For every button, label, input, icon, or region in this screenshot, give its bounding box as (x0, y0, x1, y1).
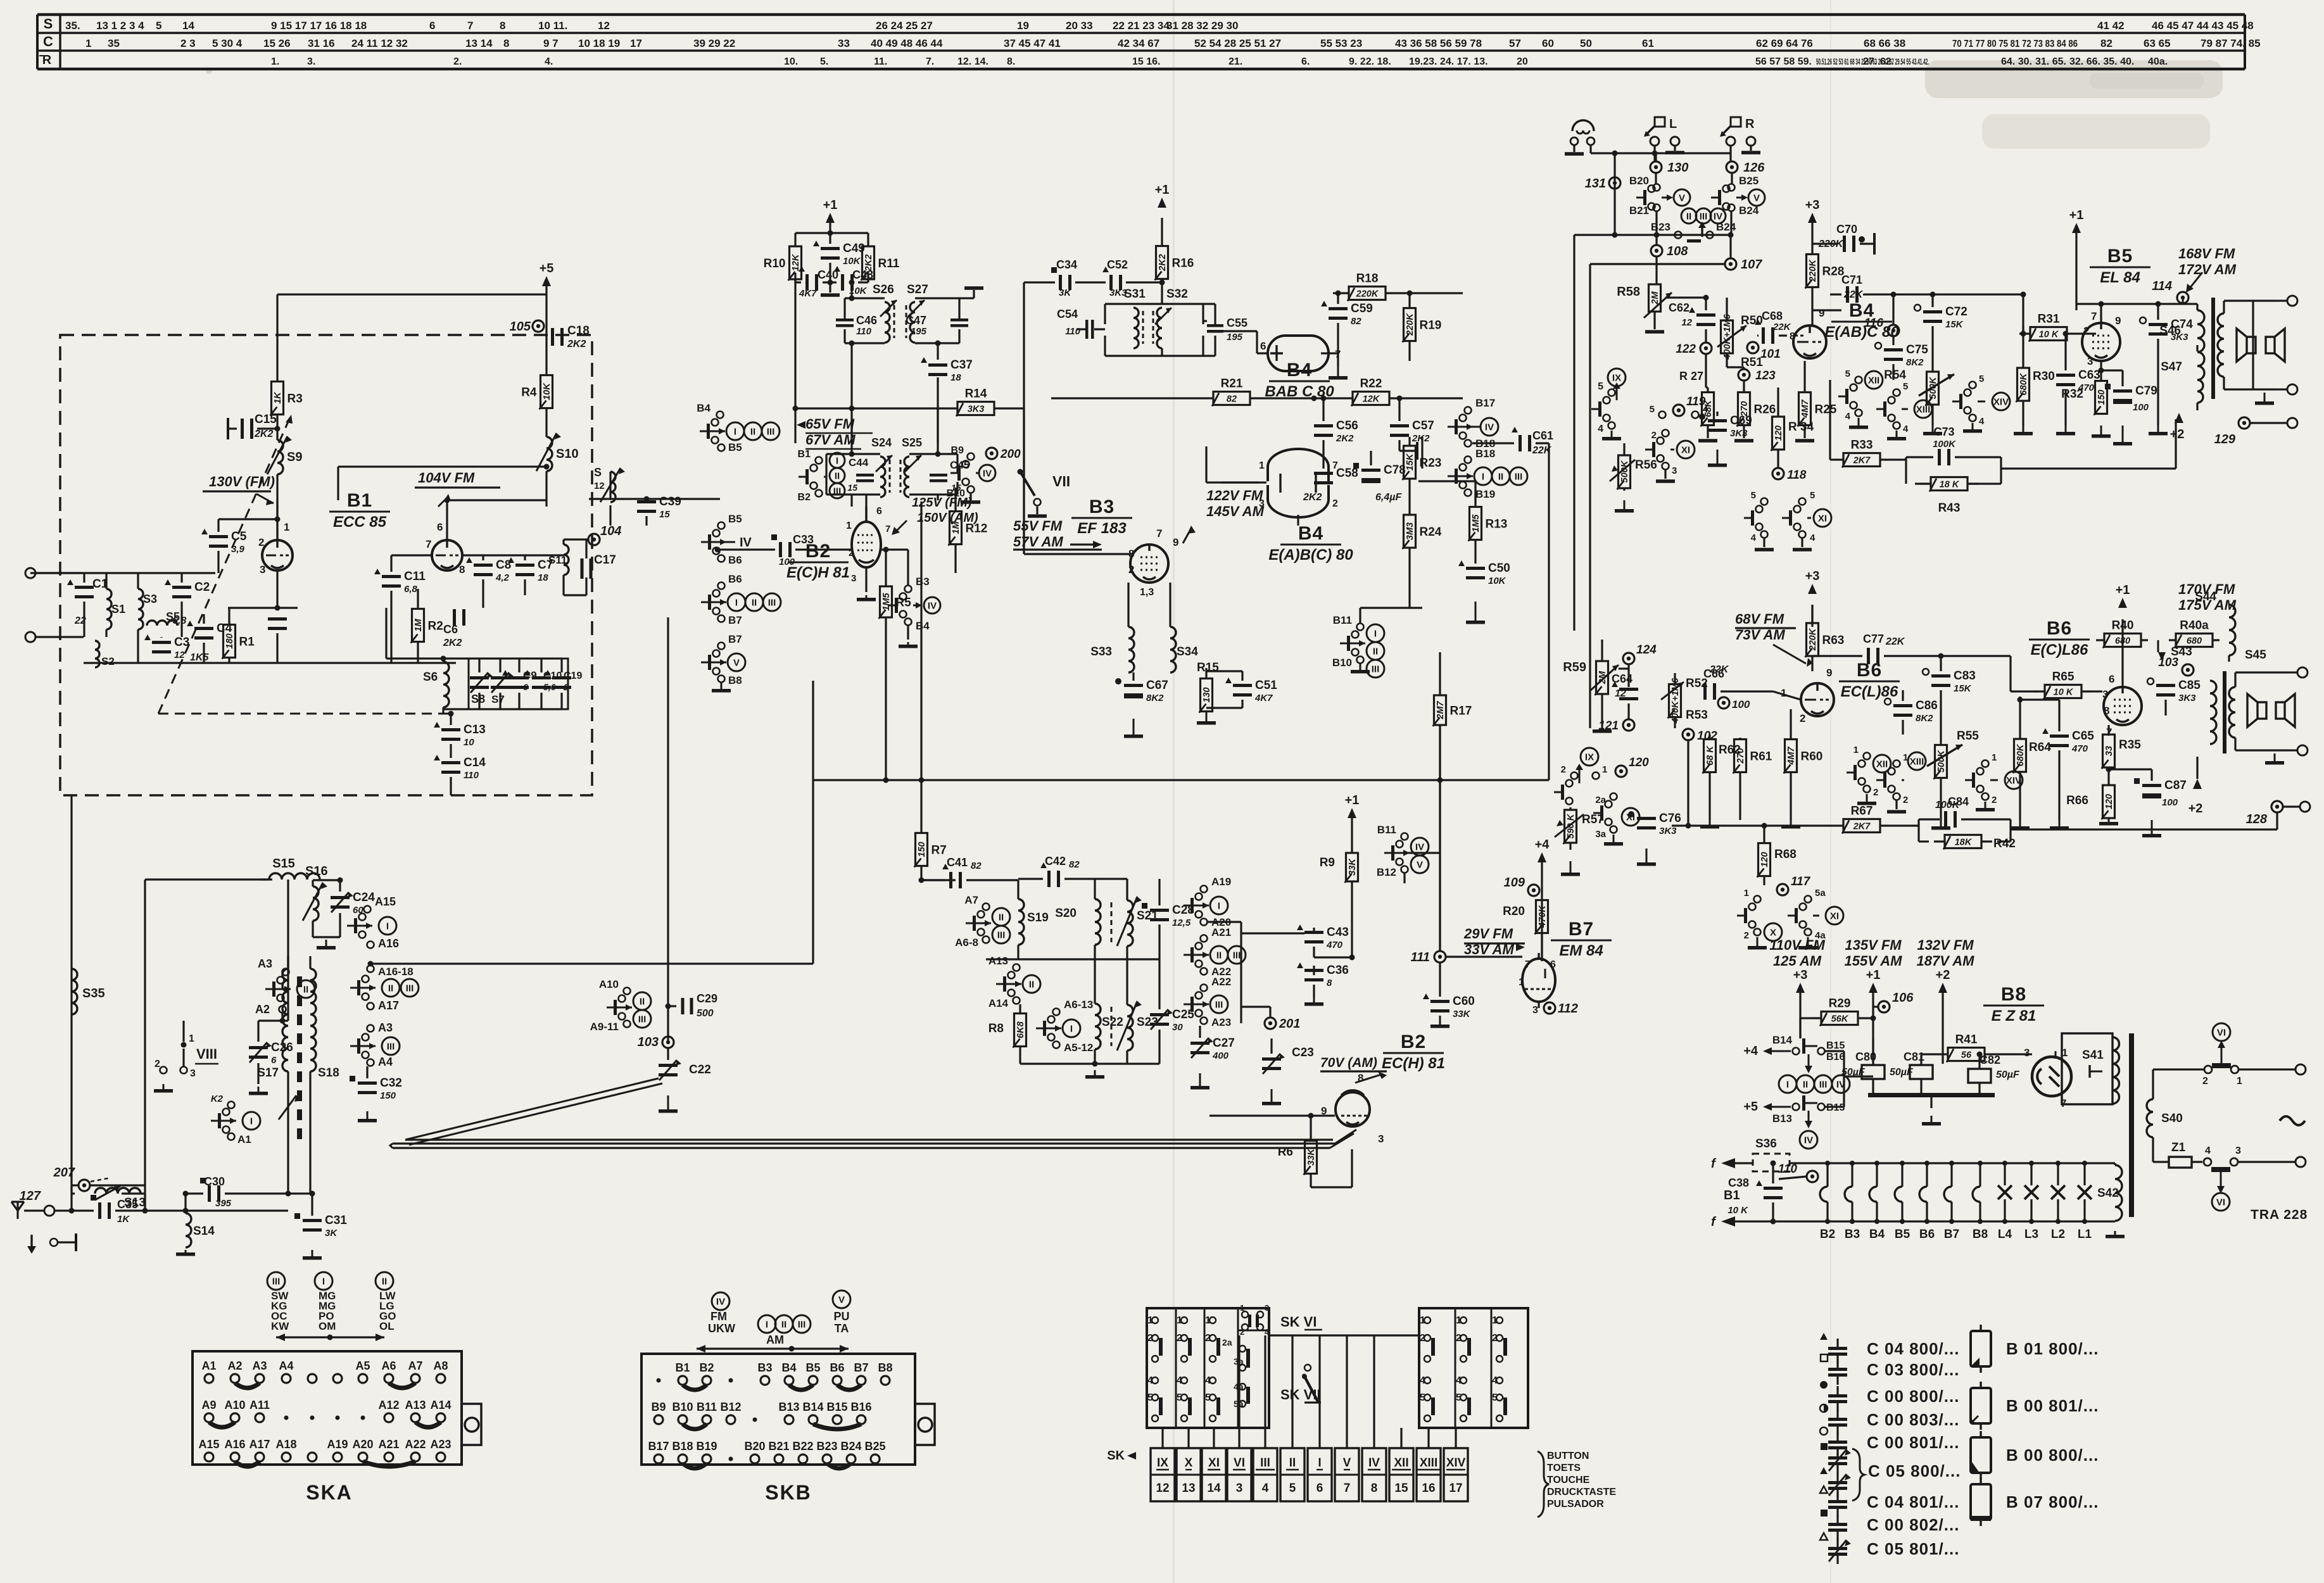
svg-text:S35: S35 (82, 987, 105, 1000)
svg-text:B14: B14 (1772, 1034, 1793, 1046)
svg-text:12: 12 (1615, 688, 1626, 699)
svg-text:C 00 803/...: C 00 803/... (1867, 1410, 1959, 1429)
wire left vertical S35 (70, 795, 72, 1194)
capacitor C67 (1115, 672, 1168, 738)
svg-text:20 33: 20 33 (1066, 20, 1093, 32)
svg-text:33: 33 (838, 37, 850, 49)
coil S2 (95, 641, 115, 667)
svg-text:C85: C85 (2178, 679, 2201, 692)
wire tank feed (386, 608, 446, 662)
svg-text:9: 9 (1819, 307, 1824, 319)
capacitor C83 (1923, 653, 1976, 735)
svg-text:R29: R29 (1829, 997, 1851, 1011)
svg-text:2: 2 (1800, 712, 1805, 724)
svg-text:XII: XII (1394, 1456, 1408, 1470)
svg-text:B10: B10 (1332, 657, 1352, 669)
power +1 e (2116, 583, 2130, 687)
svg-text:A12: A12 (378, 1399, 399, 1411)
terminal 103b (2158, 645, 2194, 676)
wire junction row (1574, 232, 1734, 631)
extra contacts col4 (1222, 1337, 1250, 1409)
band arrow (276, 1334, 384, 1341)
svg-text:C44: C44 (849, 457, 869, 469)
svg-text:32. 66. 35. 40.: 32. 66. 35. 40. (2069, 56, 2134, 67)
svg-text:40 49 48 46 44: 40 49 48 46 44 (871, 37, 943, 49)
capacitor C82 (1968, 1052, 2020, 1094)
svg-text:10 K: 10 K (2054, 688, 2074, 698)
svg-text:C67: C67 (1146, 679, 1168, 692)
resistor R8 (988, 1004, 1026, 1064)
terminal 131 (1585, 177, 1620, 191)
svg-text:B25: B25 (1739, 175, 1759, 187)
svg-text:A14: A14 (430, 1399, 451, 1411)
svg-text:B4: B4 (781, 1361, 796, 1374)
switch VII lever (1018, 469, 1071, 518)
band circ IV (708, 1292, 735, 1335)
IF transformer S26 S27 (836, 283, 983, 346)
svg-text:57: 57 (1509, 37, 1521, 49)
svg-text:S25: S25 (902, 436, 922, 449)
voltage 125V (892, 496, 978, 535)
tube B4 diode a (1260, 336, 1341, 371)
svg-text:R56: R56 (1635, 458, 1657, 472)
svg-text:2M: 2M (1650, 291, 1660, 305)
svg-text:A21: A21 (378, 1438, 399, 1451)
svg-text:109: 109 (1504, 876, 1525, 890)
tuning gang dashed diagonal (158, 415, 451, 714)
wire 103 vert (667, 617, 669, 1042)
svg-text:12,5: 12,5 (1172, 918, 1191, 928)
svg-text:S7: S7 (491, 693, 505, 705)
svg-text:3K3: 3K3 (968, 405, 985, 415)
svg-text:B24: B24 (840, 1440, 861, 1453)
svg-text:II: II (1803, 1080, 1808, 1090)
svg-text:2K2: 2K2 (1411, 433, 1430, 444)
svg-text:XIV: XIV (1993, 397, 2009, 408)
capacitor C25 (1150, 959, 1194, 1064)
svg-text:68V FM: 68V FM (1735, 611, 1784, 627)
trimmer C22 (659, 1048, 711, 1113)
svg-text:B6: B6 (830, 1361, 844, 1374)
wire R30 node (2021, 326, 2026, 337)
resistor R33 (1830, 380, 1906, 468)
switch X pair (1593, 793, 1639, 846)
wire diode join (1297, 515, 1299, 526)
tube label B1 (329, 490, 390, 531)
svg-text:121: 121 (1598, 719, 1619, 733)
capacitor C5 (201, 519, 247, 573)
svg-text:3a: 3a (1595, 829, 1606, 840)
svg-text:6: 6 (271, 1055, 277, 1066)
svg-text:4: 4 (1845, 411, 1851, 422)
svg-text:B5: B5 (805, 1361, 820, 1374)
svg-text:62 69 64 76: 62 69 64 76 (1756, 37, 1813, 49)
svg-text:3: 3 (2102, 688, 2108, 700)
wire S12 C39 (589, 472, 720, 502)
svg-text:C2: C2 (194, 581, 210, 594)
resistor R4 (521, 370, 552, 437)
svg-text:15K: 15K (1954, 683, 1972, 694)
svg-text:B10: B10 (947, 488, 965, 499)
svg-text:105: 105 (510, 320, 531, 334)
svg-text:1M: 1M (414, 619, 424, 632)
power +4 b7 (1535, 838, 1550, 862)
svg-text:5: 5 (1979, 374, 1984, 384)
svg-text:2: 2 (2202, 1076, 2208, 1087)
svg-text:3K3: 3K3 (1730, 428, 1748, 439)
contact A5-12 (1053, 1042, 1094, 1054)
svg-text:C10: C10 (543, 671, 562, 681)
svg-text:A18: A18 (275, 1438, 296, 1451)
switch XII b (1847, 745, 1891, 805)
svg-text:B18: B18 (1475, 448, 1495, 460)
coil S5 (147, 610, 180, 626)
contact pair B3 B4 (888, 550, 940, 648)
capacitor C77 (1812, 633, 2011, 671)
svg-text:S45: S45 (2245, 648, 2266, 662)
svg-text:III: III (1233, 950, 1241, 961)
svg-text:100: 100 (779, 557, 795, 567)
svg-text:S2: S2 (101, 655, 115, 667)
svg-text:R 27: R 27 (1679, 370, 1703, 382)
power +2 b (2188, 757, 2203, 816)
svg-text:S9: S9 (287, 450, 302, 464)
svg-text:4: 4 (1598, 424, 1603, 434)
svg-text:2K2: 2K2 (1158, 254, 1168, 272)
svg-text:46 45 47 44 43 45 48: 46 45 47 44 43 45 48 (2152, 20, 2254, 32)
svg-text:187V AM: 187V AM (1917, 953, 1975, 969)
svg-text:S: S (594, 466, 602, 479)
svg-text:TOUCHE: TOUCHE (1547, 1475, 1590, 1485)
svg-text:10 11.: 10 11. (538, 20, 567, 32)
svg-text:R42: R42 (1993, 837, 2016, 850)
svg-text:110: 110 (1065, 326, 1081, 337)
terminal 109 (1504, 862, 1542, 961)
voltage 68V (1735, 611, 1813, 667)
svg-text:132V FM: 132V FM (1917, 937, 1974, 953)
svg-text:C55: C55 (1227, 317, 1247, 329)
wire B1b right (462, 554, 564, 556)
svg-text:123: 123 (1755, 369, 1776, 382)
svg-text:101: 101 (1760, 348, 1781, 361)
IF transformer S31 S32 (1057, 282, 1247, 356)
label B1 lamp (1724, 1189, 1740, 1202)
svg-text:1M: 1M (951, 521, 961, 534)
svg-text:C58: C58 (1336, 467, 1358, 480)
resistor R3 (270, 294, 303, 419)
capacitor C27 (1190, 1026, 1235, 1090)
power +2 c (1936, 968, 1950, 1064)
svg-text:C32: C32 (380, 1076, 402, 1090)
svg-text:R53: R53 (1686, 709, 1708, 722)
terminal 108 (1651, 235, 1688, 284)
resistor R13 (1418, 481, 1507, 543)
svg-text:C18: C18 (567, 324, 590, 337)
resistor R16 (1155, 218, 1194, 282)
coil S44 (2195, 590, 2235, 662)
capacitor C66 (1703, 664, 1801, 710)
svg-text:70V (AM): 70V (AM) (1320, 1056, 1377, 1070)
svg-text:SKA: SKA (306, 1481, 353, 1504)
svg-text:C57: C57 (1412, 419, 1434, 432)
svg-text:2: 2 (1561, 764, 1566, 775)
circ II a (297, 980, 315, 998)
svg-text:22K: 22K (1885, 636, 1905, 647)
svg-text:C34: C34 (1056, 258, 1077, 271)
svg-text:10K: 10K (843, 256, 861, 267)
band arrow B (697, 1345, 849, 1353)
capacitor C59 (1321, 291, 1373, 336)
svg-text:R11: R11 (878, 257, 900, 270)
tube B5 EL84 (2082, 310, 2121, 367)
capacitor C42 (1018, 855, 1127, 887)
contact ladder A19-A23 (1184, 876, 1246, 1028)
svg-text:R16: R16 (1172, 257, 1194, 270)
svg-text:3,9: 3,9 (231, 544, 245, 555)
svg-text:R18: R18 (1356, 272, 1379, 286)
svg-text:B19: B19 (1475, 488, 1495, 500)
tube label B2 (786, 541, 850, 581)
node B1 grid (275, 426, 281, 432)
svg-text:A19: A19 (1211, 876, 1231, 888)
svg-text:C59: C59 (1351, 302, 1373, 315)
svg-text:3: 3 (1265, 1303, 1269, 1313)
svg-text:XIII: XIII (1910, 757, 1924, 767)
svg-text:500: 500 (697, 1008, 714, 1019)
contact A13 (988, 955, 1040, 997)
svg-text:A16-18: A16-18 (378, 966, 414, 978)
tube B6 pentode (2102, 673, 2142, 738)
svg-text:C6: C6 (443, 623, 458, 636)
svg-text:18K: 18K (1955, 838, 1973, 848)
svg-text:12K: 12K (1363, 394, 1380, 405)
svg-text:4: 4 (1262, 1482, 1269, 1495)
terminal 118 (1772, 453, 1807, 482)
capacitor C18 (546, 286, 590, 370)
svg-text:B16: B16 (1826, 1052, 1845, 1063)
svg-text:C 05 800/...: C 05 800/... (1868, 1461, 1961, 1480)
svg-text:107: 107 (1741, 258, 1762, 272)
svg-text:4: 4 (1979, 416, 1985, 427)
svg-text:A6: A6 (381, 1359, 396, 1372)
capacitor C86 (1885, 690, 1938, 735)
svg-text:100K: 100K (1933, 439, 1956, 450)
pickup symbol (1565, 120, 1595, 156)
capacitor C62 (1669, 301, 1715, 343)
capacitor C64 (1612, 672, 1638, 700)
svg-text:35: 35 (108, 37, 120, 49)
tube label B6b (2029, 618, 2090, 659)
svg-text:100: 100 (1732, 698, 1750, 710)
svg-text:C27: C27 (1213, 1037, 1235, 1050)
svg-text:52 54 28 25 51 27: 52 54 28 25 51 27 (1194, 37, 1281, 49)
svg-text:R41: R41 (1955, 1033, 1978, 1047)
svg-text:A19: A19 (327, 1438, 348, 1451)
resistor R27 (1679, 370, 1717, 443)
resistor R20 (1503, 899, 1548, 961)
jack R (1720, 117, 1760, 161)
contact A2 (255, 1003, 286, 1024)
svg-text:B8: B8 (728, 674, 742, 686)
capacitor C72 (1914, 292, 1967, 364)
svg-text:S14: S14 (193, 1225, 215, 1238)
svg-text:A20: A20 (352, 1438, 373, 1451)
svg-text:2K7: 2K7 (1853, 456, 1871, 466)
svg-text:S46: S46 (2159, 324, 2181, 337)
svg-text:10K: 10K (542, 382, 552, 400)
svg-text:B7: B7 (1944, 1228, 1959, 1241)
svg-text:R13: R13 (1486, 518, 1508, 531)
svg-text:S24: S24 (871, 436, 892, 449)
resistor R43 (1906, 457, 2001, 515)
svg-text:7: 7 (426, 538, 431, 550)
terminal 127 (20, 1189, 72, 1216)
svg-text:131: 131 (1585, 177, 1606, 191)
svg-text:L: L (1669, 117, 1677, 131)
svg-text:17: 17 (1449, 1482, 1462, 1495)
svg-text:13 1 2 3 4: 13 1 2 3 4 (96, 20, 144, 32)
svg-text:UKW: UKW (708, 1322, 735, 1335)
svg-text:A8: A8 (433, 1359, 448, 1372)
svg-text:68 66 38: 68 66 38 (1864, 37, 1905, 49)
circ II III IV (1681, 208, 1726, 237)
svg-text:12K: 12K (791, 253, 801, 271)
svg-text:60: 60 (1542, 37, 1554, 49)
svg-text:110V FM: 110V FM (1769, 937, 1825, 953)
capacitor C85 (2147, 678, 2201, 716)
capacitor C80 (1841, 1038, 1885, 1093)
svg-text:6,4µF: 6,4µF (1375, 492, 1402, 503)
capacitor C29 (666, 992, 718, 1019)
svg-text:4: 4 (1903, 424, 1909, 434)
svg-text:B20: B20 (744, 1440, 765, 1453)
resistor R32 (2061, 361, 2111, 438)
terminal 111 (1411, 725, 1522, 964)
switch XII a (1838, 369, 1883, 429)
contact A15 (347, 895, 396, 938)
svg-text:B1: B1 (1724, 1189, 1740, 1202)
svg-text:II: II (382, 1277, 387, 1287)
svg-text:31 28 32 29 30: 31 28 32 29 30 (1166, 20, 1238, 32)
capacitor C50 (1458, 543, 1510, 624)
svg-text:II: II (1029, 980, 1034, 990)
tube B3 EF183 (1128, 527, 1178, 598)
svg-text:II: II (1373, 646, 1378, 657)
transformer S41 (2062, 1033, 2119, 1104)
svg-text:XII: XII (1868, 375, 1879, 386)
svg-text:C11: C11 (404, 570, 426, 583)
svg-text:6: 6 (1550, 959, 1556, 970)
svg-text:R4: R4 (521, 386, 537, 400)
wire mid vert a (812, 681, 814, 964)
svg-text:6: 6 (1260, 340, 1266, 352)
svg-text:+1: +1 (823, 198, 838, 212)
svg-text:680K: 680K (2016, 743, 2026, 766)
trimmer C23 (1262, 1038, 1314, 1106)
f arrows (1711, 1157, 1767, 1229)
svg-text:3.: 3. (307, 56, 315, 67)
contact ladder B11 B10 (1332, 614, 1384, 678)
svg-text:68 K: 68 K (1705, 745, 1715, 766)
svg-text:2: 2 (1332, 498, 1338, 509)
svg-text:120: 120 (1774, 426, 1784, 441)
svg-text:C65: C65 (2072, 729, 2094, 743)
capacitor C32 (350, 1066, 402, 1123)
svg-text:R25: R25 (1815, 403, 1837, 417)
svg-text:B22: B22 (792, 1440, 813, 1453)
switch X XI pair (1737, 888, 1843, 950)
wire S16 gnd (313, 937, 340, 950)
capacitor C34 (1024, 258, 1077, 298)
svg-text:70 71 77 80 75 81 72 73 83 84: 70 71 77 80 75 81 72 73 83 84 86 (1952, 39, 2078, 49)
svg-text:S: S (44, 16, 53, 32)
svg-text:A11: A11 (249, 1399, 270, 1411)
terminal 200 (986, 448, 1021, 461)
svg-text:15: 15 (847, 482, 857, 493)
terminal 117 (1764, 875, 1811, 895)
wire S27 down (937, 343, 938, 443)
svg-text:108: 108 (1667, 244, 1688, 258)
svg-text:AM: AM (766, 1334, 784, 1346)
svg-text:6,8: 6,8 (172, 615, 186, 626)
svg-text:B11: B11 (1333, 614, 1352, 626)
svg-text:L3: L3 (2024, 1228, 2038, 1241)
svg-text:110: 110 (1778, 1163, 1798, 1176)
svg-text:8: 8 (1327, 978, 1332, 988)
svg-text:B23: B23 (1651, 221, 1670, 233)
svg-text:B5: B5 (2107, 246, 2133, 267)
svg-text:KW: KW (271, 1320, 289, 1332)
svg-text:S33: S33 (1090, 645, 1112, 659)
svg-text:C15: C15 (255, 413, 277, 426)
svg-text:1K: 1K (273, 391, 283, 404)
svg-text:7: 7 (1156, 527, 1162, 539)
wire 201 up (1241, 1007, 1270, 1018)
svg-text:C56: C56 (1336, 419, 1358, 432)
contact B11 B12 (1377, 824, 1429, 883)
svg-text:104V FM: 104V FM (418, 470, 475, 486)
wire B3 grid (1024, 408, 1131, 554)
contact A17 (367, 999, 400, 1012)
svg-text:IX: IX (1585, 752, 1594, 763)
capacitor C14 (434, 744, 486, 795)
svg-text:C50: C50 (1488, 562, 1510, 575)
resistor R61 (1733, 738, 1772, 820)
svg-text:15 16.: 15 16. (1132, 56, 1160, 67)
svg-text:IX: IX (1157, 1456, 1168, 1470)
svg-text:680: 680 (2115, 636, 2130, 646)
svg-text:8K2: 8K2 (1916, 713, 1933, 724)
svg-text:C73: C73 (1933, 426, 1954, 438)
svg-text:R1: R1 (239, 636, 255, 649)
label TRA 228 (2251, 1208, 2308, 1222)
svg-text:C37: C37 (950, 358, 973, 372)
resistor R25 (1795, 361, 1837, 443)
svg-text:29V FM: 29V FM (1463, 926, 1513, 942)
svg-text:C 00 802/...: C 00 802/... (1867, 1515, 1959, 1534)
svg-text:SKB: SKB (765, 1481, 812, 1504)
svg-text:R50: R50 (1741, 314, 1763, 327)
svg-text:S36: S36 (1755, 1137, 1777, 1151)
capacitor C60 (1423, 962, 1475, 1028)
svg-text:3: 3 (190, 1068, 196, 1079)
svg-text:II: II (1498, 472, 1503, 482)
svg-text:A4: A4 (279, 1359, 293, 1372)
svg-text:40a.: 40a. (2148, 56, 2168, 67)
voltage 170V (2177, 581, 2237, 613)
svg-text:+3: +3 (1793, 968, 1808, 982)
button brace (1538, 1451, 1549, 1517)
